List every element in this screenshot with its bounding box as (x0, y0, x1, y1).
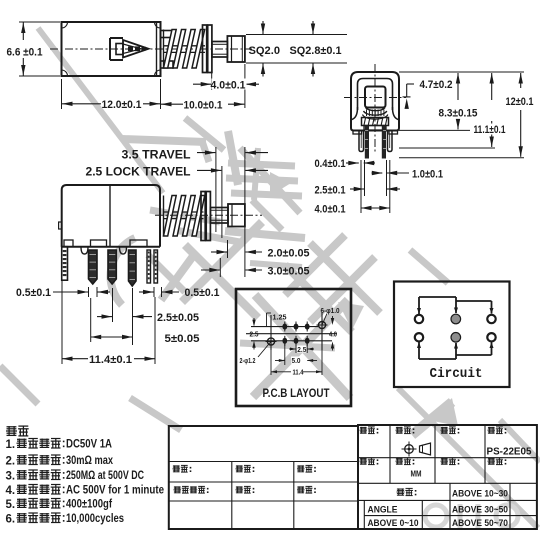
svg-text:P.C.B LAYOUT: P.C.B LAYOUT (263, 388, 330, 400)
side view 2 neck (210, 208, 228, 224)
PCB label 6-phi1.0 (322, 314, 327, 326)
left wall leg (62, 247, 68, 281)
collar ring 3 (364, 126, 386, 131)
watermark stroke bottom-left (0, 366, 38, 404)
table label 视图 (396, 426, 403, 428)
dimension 12.0±0.1 extension lines (61, 79, 63, 109)
svg-text:10.0±0.1: 10.0±0.1 (184, 100, 223, 112)
watermark extra bars cluster A (150, 210, 220, 222)
circuit wire top left (418, 297, 420, 314)
terminal pin 1 (89, 250, 98, 284)
circuit wire bottom left (418, 342, 420, 359)
side view 2 center line (155, 214, 262, 216)
svg-text:1.25: 1.25 (273, 315, 287, 322)
watermark X over PCB (255, 295, 350, 398)
mount nubs right of body (161, 31, 174, 38)
circuit wire bottom right (456, 354, 492, 356)
watermark arrow mid (270, 172, 291, 196)
watermark lattice cluster mid-right (285, 265, 352, 332)
PCB layout border (236, 289, 351, 406)
body corner fillet marks (62, 22, 68, 28)
svg-text:SQ2.0: SQ2.0 (249, 45, 281, 57)
PCB label 2-phi1.2 (258, 342, 271, 358)
front view bottom tabs (353, 131, 362, 135)
outer pin right (388, 131, 393, 152)
latch pin bracket (109, 38, 111, 60)
table left section column lines (231, 462, 233, 530)
svg-text:Circuit: Circuit (430, 367, 483, 382)
watermark arc stroke (111, 238, 135, 305)
table label 比例 (236, 486, 243, 488)
side view body outline (62, 22, 161, 76)
watermark stroke right edge (410, 250, 448, 283)
svg-text:4.0±0.1: 4.0±0.1 (315, 204, 346, 216)
PCB dimension 11.4 (270, 345, 272, 375)
side view 2 cap (228, 204, 245, 227)
dimension 4.7±0.2 leader (407, 83, 414, 85)
watermark X stroke (161, 252, 196, 300)
watermark faint logo text bottom-right (425, 505, 447, 527)
svg-text:SQ2.8±0.1: SQ2.8±0.1 (290, 45, 342, 57)
svg-text:ABOVE 0~10: ABOVE 0~10 (368, 518, 419, 529)
watermark character cluster A (122, 139, 206, 142)
svg-text:11.4: 11.4 (293, 370, 304, 377)
svg-text:0.5±0.1: 0.5±0.1 (16, 287, 51, 299)
svg-text:12.0±0.1: 12.0±0.1 (102, 99, 142, 111)
SQ2.8 arrows (312, 21, 314, 34)
svg-text:6-φ1.0: 6-φ1.0 (321, 308, 340, 315)
bottom notch curves (81, 247, 88, 254)
table label 页面 (360, 457, 367, 459)
reference line bottom (399, 157, 524, 159)
latch cone (123, 40, 149, 58)
table label 单位 (396, 457, 403, 459)
body left bump (59, 222, 62, 229)
svg-text:8.3±0.15: 8.3±0.15 (439, 108, 478, 120)
svg-text:30mΩ max: 30mΩ max (66, 453, 113, 467)
svg-text:2-φ1.2: 2-φ1.2 (240, 358, 256, 365)
button bellows arcs (366, 108, 386, 111)
dimension 11.4±0.1 (62, 358, 88, 360)
inner frame feet (352, 107, 358, 120)
table right section column lines (389, 425, 391, 483)
svg-text:11.4±0.1: 11.4±0.1 (89, 354, 132, 366)
reference line top (399, 71, 524, 73)
body bottom edge (62, 246, 160, 248)
circuit wire top right (456, 300, 492, 302)
table label 版本 (488, 457, 495, 459)
outer pin left (359, 131, 364, 152)
spring coils (164, 30, 177, 69)
PCB hole column lines (270, 315, 272, 350)
body seam line (109, 185, 111, 247)
svg-text:2.5±0.05: 2.5±0.05 (157, 312, 199, 324)
svg-text:ABOVE 10~30: ABOVE 10~30 (452, 489, 508, 500)
right terminal double bar (147, 250, 151, 283)
table label 页数 (297, 486, 304, 488)
plunger flange washers (203, 25, 207, 73)
center line (50, 48, 252, 50)
reference line 11.1 (399, 147, 495, 149)
outer pin seams (360, 134, 362, 148)
front view body outline (351, 72, 399, 131)
dimension 4.0±0.1 extension lines (211, 73, 213, 90)
projection symbol circle (405, 445, 414, 454)
svg-text:4.0±0.1: 4.0±0.1 (211, 80, 246, 92)
svg-text:PS-22E05: PS-22E05 (487, 446, 532, 458)
plunger cap (227, 36, 245, 62)
svg-text:DC50V 1A: DC50V 1A (66, 437, 112, 451)
spec header 规格 (7, 426, 17, 428)
table left section row lines (169, 461, 358, 463)
table label 材料 (360, 426, 367, 428)
front view center lines (374, 64, 376, 152)
PCB hole 1.2 top right (318, 321, 325, 328)
svg-text:5.0: 5.0 (292, 358, 301, 365)
svg-text:12±0.1: 12±0.1 (506, 96, 534, 108)
svg-text:0.4±0.1: 0.4±0.1 (315, 158, 346, 170)
svg-text:2.5 LOCK TRAVEL: 2.5 LOCK TRAVEL (86, 165, 191, 179)
PCB dimension 2.5 center (295, 344, 297, 353)
dimension 3.5 travel arrows (197, 152, 215, 154)
dimension 4.0±0.1 (193, 83, 211, 85)
svg-text:10,000cycles: 10,000cycles (66, 511, 124, 525)
angle sub-box (363, 500, 365, 529)
svg-text:5±0.05: 5±0.05 (165, 333, 200, 345)
svg-text:250MΩ at 500V DC: 250MΩ at 500V DC (66, 468, 144, 482)
terminal pin right dark (382, 126, 386, 159)
dimension 6.6±0.1 extension lines (19, 21, 60, 23)
dimension 8.3±0.15 (457, 73, 459, 100)
svg-text:ABOVE 50~70: ABOVE 50~70 (452, 518, 508, 529)
dimension 10.0±0.1 (161, 103, 183, 105)
svg-text:1.0±0.1: 1.0±0.1 (412, 169, 443, 181)
pin extension lines (360, 160, 362, 213)
svg-text:3.0±0.05: 3.0±0.05 (268, 266, 310, 278)
table right section row lines (358, 457, 537, 459)
dimension 2.5±0.05 bottom (97, 316, 112, 318)
svg-text:AC 500V for 1 minute: AC 500V for 1 minute (66, 483, 164, 497)
PCB hole 1.2 bottom left (267, 338, 274, 345)
table label 绘图 (173, 465, 180, 467)
svg-text:2.5: 2.5 (297, 347, 306, 354)
svg-text:4.7±0.2: 4.7±0.2 (420, 79, 453, 91)
svg-text:5.: 5. (6, 499, 16, 511)
side view 2 spring coils (164, 196, 177, 237)
svg-text:6.: 6. (6, 513, 16, 525)
push button square (365, 87, 386, 108)
svg-text:ABOVE 30~50: ABOVE 30~50 (452, 505, 508, 516)
extension lines bottom dims (112, 288, 114, 322)
table right section outer border (358, 425, 537, 529)
svg-text:11.1±0.1: 11.1±0.1 (474, 124, 506, 136)
table left section outer border (169, 426, 358, 529)
svg-text:2.5: 2.5 (250, 331, 259, 338)
PCB pads 6x (282, 324, 287, 330)
table label 类型 (441, 426, 448, 428)
dimension 3.0±0.05 (201, 269, 220, 271)
side view 2 spring rod (164, 211, 204, 213)
watermark strokes bottom-right (428, 398, 458, 426)
svg-text:0.5±0.1: 0.5±0.1 (185, 287, 220, 299)
terminal pin 2 (108, 250, 116, 284)
dimension 5±0.05 (91, 336, 133, 338)
front view inner frame (358, 79, 393, 111)
svg-text:ANGLE: ANGLE (368, 505, 398, 516)
table label 审核 (297, 465, 304, 467)
PCB pad ticks (284, 322, 286, 332)
latch cone hatch (128, 46, 133, 51)
bottom slots (64, 240, 73, 247)
dimension 6.6±0.1 (22, 23, 24, 41)
table label 型号 (488, 426, 495, 428)
svg-text:3.: 3. (6, 470, 16, 482)
reference line 8.3 bottom (399, 129, 470, 131)
svg-text:1.: 1. (6, 439, 16, 451)
watermark lattice upper-left part (185, 245, 258, 318)
SQ reference lines (246, 34, 347, 36)
table label 公差 (397, 488, 404, 490)
svg-text:3.5 TRAVEL: 3.5 TRAVEL (122, 148, 191, 162)
svg-text:MM: MM (411, 469, 422, 479)
side view 2 flange washers (201, 192, 205, 241)
watermark diagonal band upper-left (38, 28, 163, 193)
PCB dimension 5.0 (284, 344, 286, 365)
dimension 12.0±0.1 (62, 103, 101, 105)
terminal pin 3 (129, 250, 137, 286)
dimension 11.1±0.1 (491, 73, 493, 100)
table label 校对 (236, 465, 243, 467)
spring rod (164, 45, 206, 47)
table label 日期 (441, 457, 448, 459)
body right wall (156, 22, 158, 76)
projection symbol cone (420, 443, 431, 455)
dimension 2.0±0.05 (211, 251, 227, 253)
table label 表面处理 (174, 486, 181, 488)
svg-text:6.6 ±0.1: 6.6 ±0.1 (7, 47, 43, 59)
terminal pin left dark (365, 126, 369, 159)
watermark arrowhead down-left (338, 302, 364, 330)
travel extension lines (215, 147, 217, 232)
dimension 1.0±0.1 (372, 172, 383, 174)
SQ2.0 arrows (262, 21, 264, 34)
plunger neck (212, 42, 228, 58)
svg-text:4.0: 4.0 (329, 331, 337, 338)
dimension 12±0.1 (520, 73, 522, 88)
svg-text:400±100gf: 400±100gf (66, 497, 113, 511)
svg-text:2.: 2. (6, 455, 16, 467)
svg-text:4.: 4. (6, 485, 16, 497)
button collar hatched (362, 118, 389, 126)
PCB pad row lines (251, 326, 318, 328)
PCB label 1.25 (266, 313, 268, 327)
svg-text:2.0±0.05: 2.0±0.05 (268, 248, 310, 260)
svg-text:2.5±0.1: 2.5±0.1 (315, 185, 346, 197)
circuit border (394, 282, 510, 388)
side view 2 body outline (62, 185, 160, 247)
circuit pole circles bottom row (415, 333, 423, 341)
dimension 2.5 lock travel arrows (197, 169, 221, 171)
circuit pole circles top row (415, 315, 423, 323)
